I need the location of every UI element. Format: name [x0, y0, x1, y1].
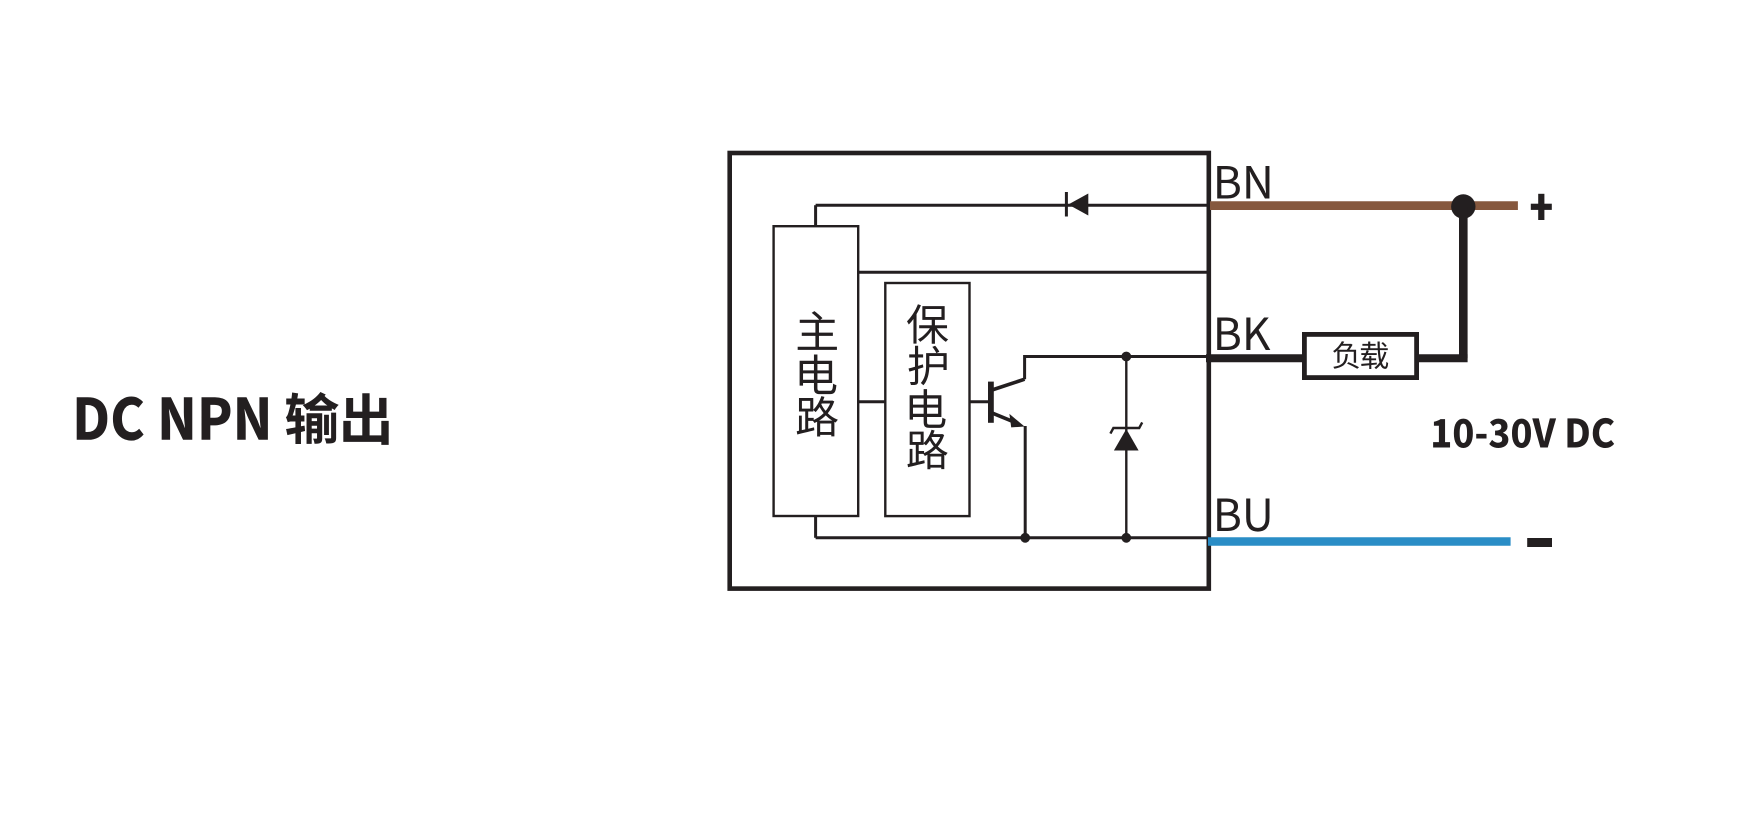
junction BU/zener — [1121, 533, 1131, 543]
sensor body outline — [730, 153, 1209, 589]
wire load to supply + — [1415, 354, 1468, 362]
diode D1 on BN line — [1066, 192, 1088, 217]
wire main-circuit bottom to BU net — [814, 516, 817, 538]
wire BK black lead to load — [1206, 354, 1306, 362]
label BK — [1217, 318, 1270, 350]
wire Q1 emitter down to BU net — [1024, 426, 1027, 538]
wire BN net internal — [816, 204, 1208, 207]
wire BN brown lead — [1210, 201, 1518, 210]
junction BK/zener — [1121, 352, 1131, 362]
wire main-circuit right to box edge — [858, 271, 1208, 274]
terminal + symbol — [1531, 194, 1552, 220]
label BU — [1217, 499, 1269, 532]
wire BU blue lead — [1208, 537, 1511, 546]
wire protection-circuit to Q1 base — [970, 400, 989, 403]
wire main-circuit to protection-circuit — [858, 400, 885, 403]
terminal - symbol — [1527, 538, 1552, 547]
block U1 main circuit 主电路 — [774, 226, 859, 516]
block U2 protection circuit 保护电路 — [885, 283, 969, 516]
zener diode Z1 — [1110, 357, 1142, 538]
junction BU/emitter — [1020, 533, 1030, 543]
wire Q1 collector to BK net — [1025, 357, 1208, 380]
label 10-30V DC — [1433, 418, 1614, 448]
load box 负载 — [1304, 334, 1416, 377]
transistor Q1 (NPN) — [991, 379, 1025, 427]
title DC NPN 输出 — [77, 392, 389, 445]
wire BU net internal — [816, 536, 1208, 539]
wire main-circuit top to BN net — [814, 205, 817, 226]
label BN — [1217, 166, 1269, 198]
node + junction on BN lead — [1451, 194, 1475, 218]
wire supply + down to load — [1459, 207, 1468, 359]
